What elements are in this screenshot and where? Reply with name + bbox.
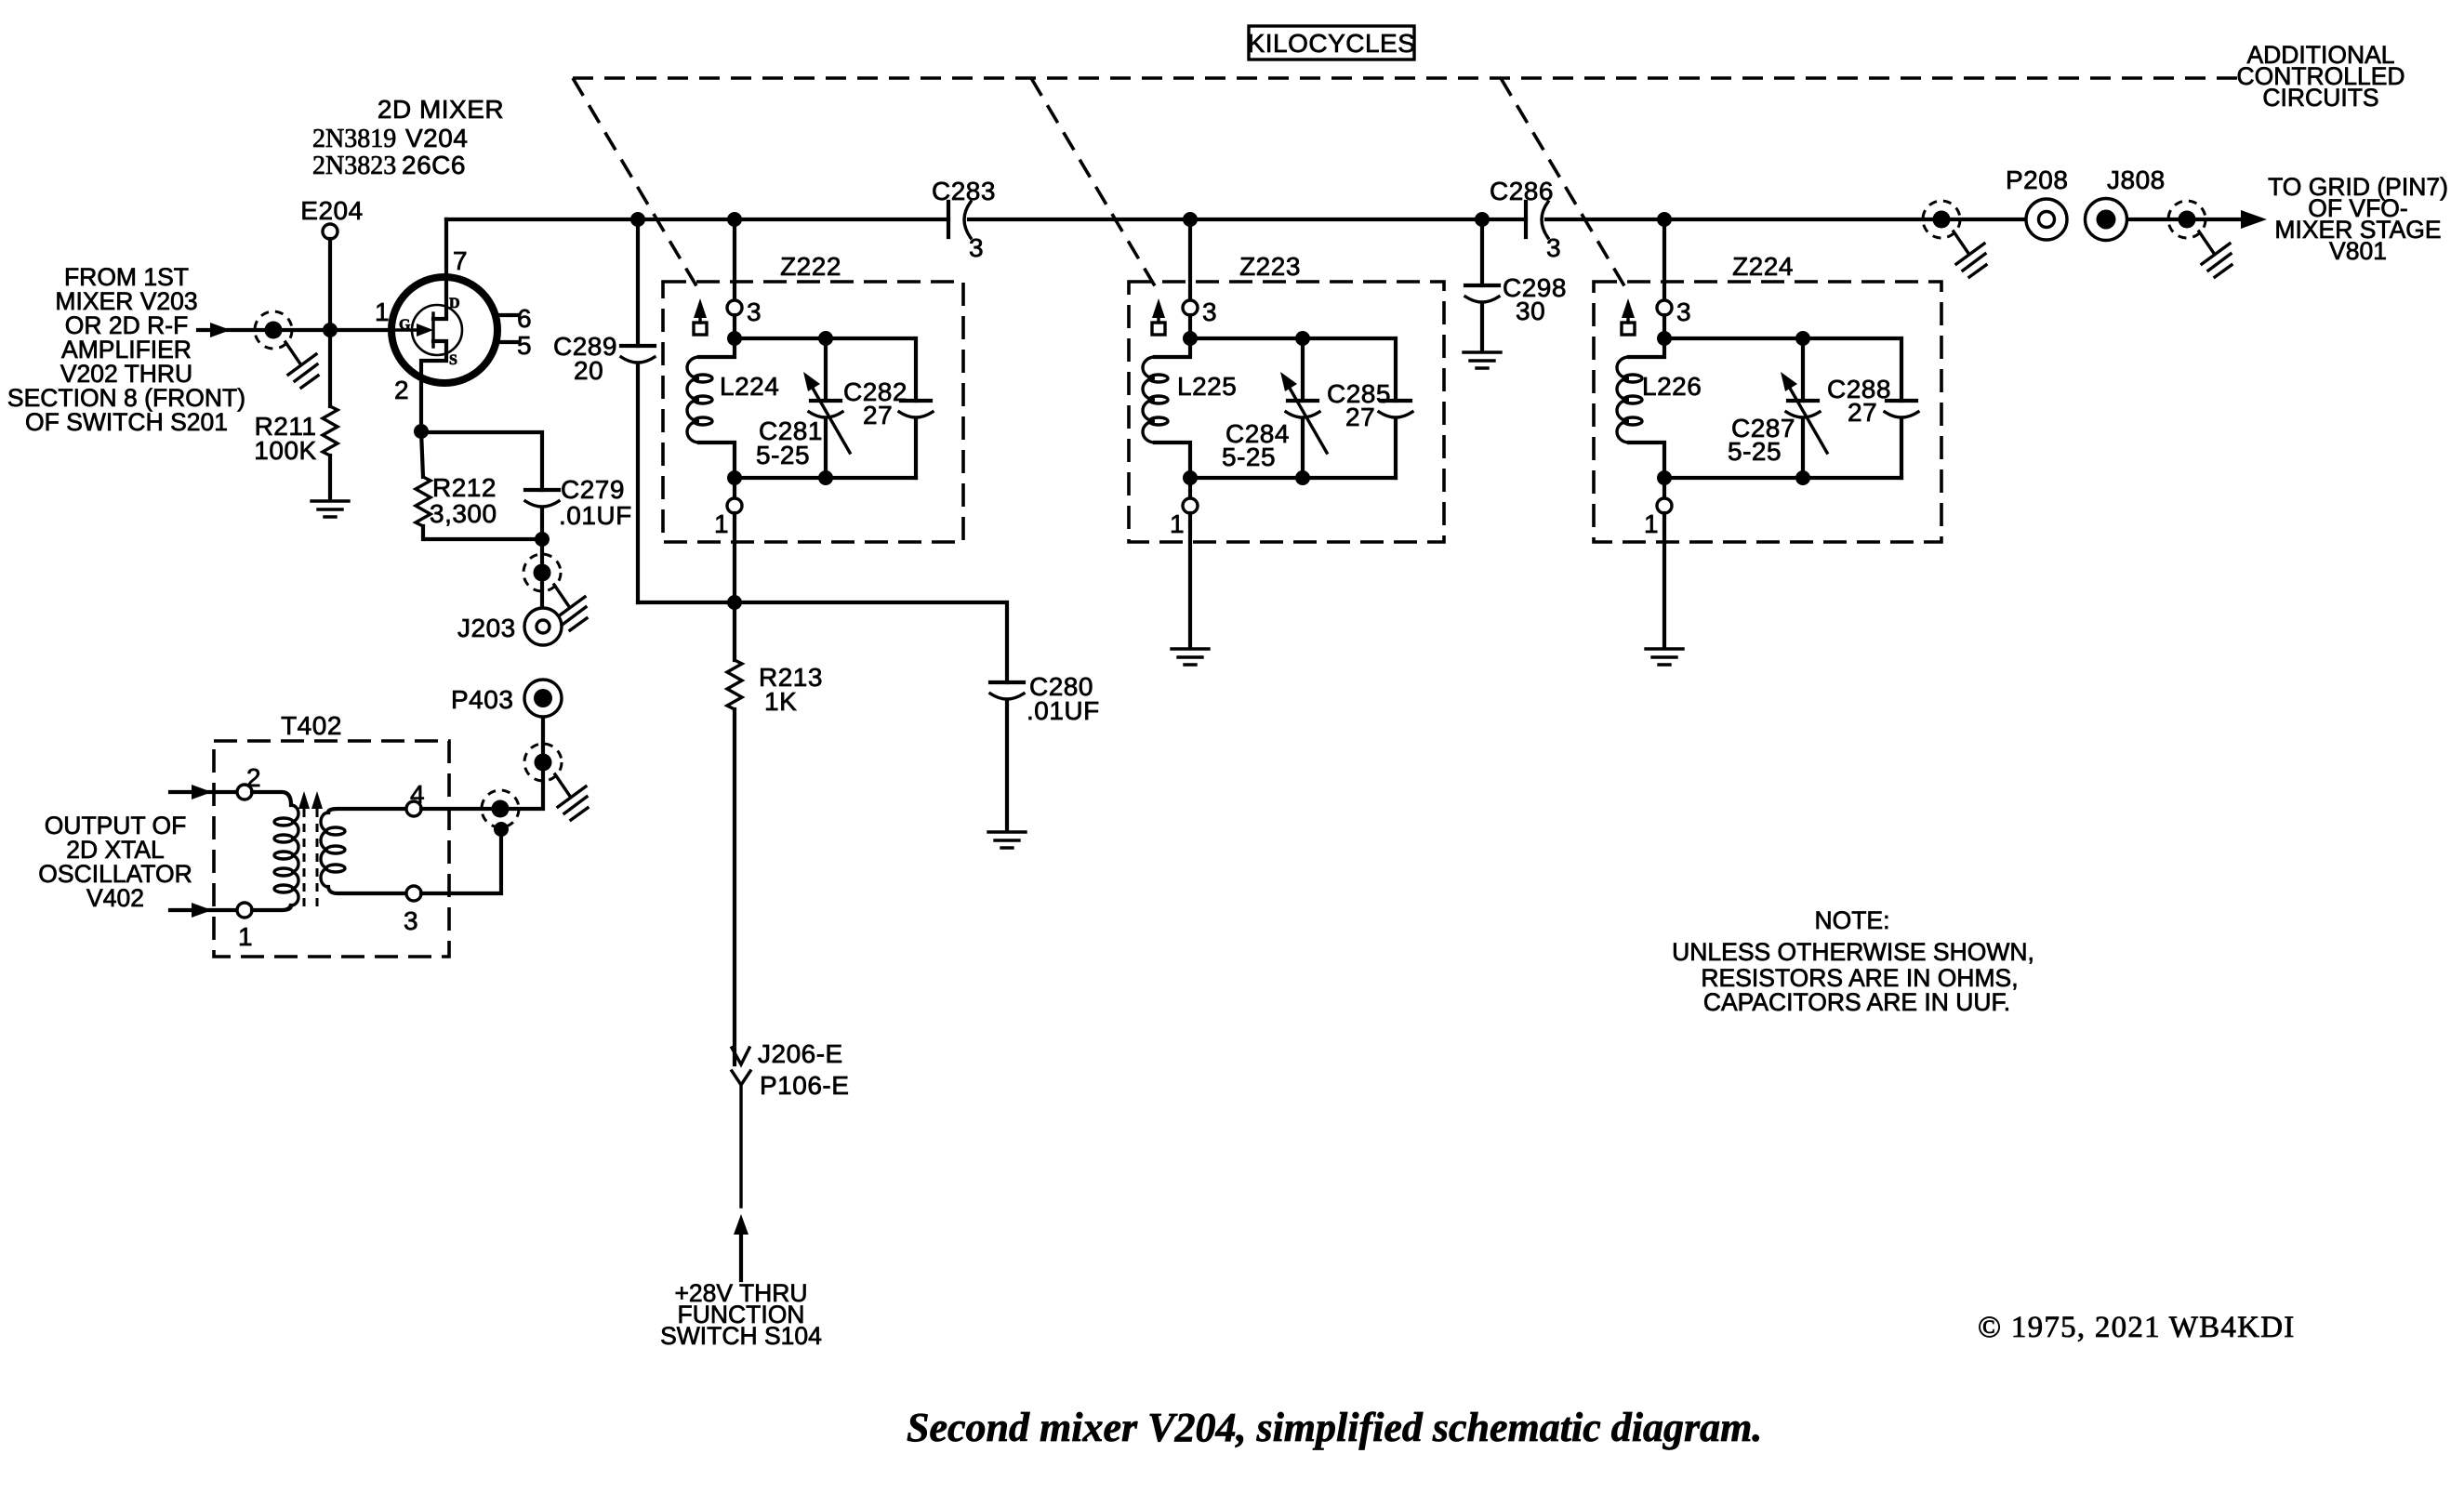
pin 3 of Z223 bbox=[1188, 219, 1192, 301]
connector: output feedthrough 2 with ground bbox=[2168, 201, 2232, 277]
svg-text:5-25: 5-25 bbox=[756, 441, 810, 469]
svg-text:T402: T402 bbox=[281, 711, 342, 740]
node: Z224 bottom-left junction bbox=[1657, 470, 1672, 485]
svg-text:1: 1 bbox=[238, 922, 253, 951]
svg-text:3: 3 bbox=[404, 906, 418, 935]
svg-text:Z224: Z224 bbox=[1732, 252, 1794, 281]
pin 2 of T402 bbox=[237, 785, 252, 799]
terminal E204 bbox=[300, 196, 363, 406]
svg-text:P208: P208 bbox=[2006, 165, 2068, 194]
node: junction at source / R212 / C279 bbox=[414, 424, 429, 439]
V204 envelope circle bbox=[391, 277, 497, 383]
wire: pin 3 return loop bbox=[421, 829, 501, 893]
svg-text:L225: L225 bbox=[1177, 372, 1237, 401]
connector P403 bbox=[451, 680, 562, 717]
wire: dashed diagonal to Z222 slug bbox=[573, 78, 701, 294]
transformer T402 dashed box bbox=[214, 741, 449, 957]
resistor R213 1K bbox=[727, 602, 823, 1064]
node: junction at R213 bbox=[727, 595, 742, 610]
svg-text:27: 27 bbox=[1848, 398, 1877, 427]
slug tuning arrow Z222 bbox=[694, 298, 707, 335]
variable capacitor C281 5-25 bbox=[756, 338, 850, 478]
capacitor C288 27 bbox=[1827, 375, 1918, 478]
svg-text:26C6: 26C6 bbox=[402, 151, 466, 179]
svg-text:J206-E: J206-E bbox=[758, 1039, 843, 1068]
wire: bottom horizontal node (R213/C280) bbox=[638, 602, 1007, 682]
svg-text:CIRCUITS: CIRCUITS bbox=[2262, 84, 2378, 112]
pin 3 of Z222 bbox=[733, 219, 736, 301]
node: Z222 top-left junction bbox=[727, 331, 742, 346]
svg-text:1: 1 bbox=[375, 297, 390, 326]
connector P106-E (fork) bbox=[732, 1071, 849, 1207]
ground for C298 bbox=[1464, 350, 1501, 368]
wire: Z222 top node bbox=[735, 338, 916, 401]
node: bus junction at Z222 pin 3 bbox=[727, 212, 742, 227]
svg-text:27: 27 bbox=[863, 401, 893, 429]
svg-text:20: 20 bbox=[574, 356, 603, 385]
svg-text:E204: E204 bbox=[300, 196, 363, 225]
node: junction input / E204 / R211 bbox=[323, 323, 338, 337]
node: Z223 top-left junction bbox=[1183, 331, 1198, 346]
svg-text:G: G bbox=[399, 317, 411, 333]
svg-text:Second mixer V204, simplified: Second mixer V204, simplified schematic … bbox=[907, 1405, 1762, 1450]
node: Z223 bottom C284 junction bbox=[1295, 470, 1310, 485]
svg-text:27: 27 bbox=[1345, 403, 1375, 431]
wire: input arrow to pin 2 bbox=[170, 790, 237, 794]
slug tuning arrow Z223 bbox=[1152, 298, 1165, 335]
node: Z224 top-left junction bbox=[1657, 331, 1672, 346]
tuned circuit Z224 dashed box bbox=[1594, 282, 1941, 542]
node: Z223 bottom-left junction bbox=[1183, 470, 1198, 485]
svg-text:5: 5 bbox=[517, 331, 532, 360]
svg-text:30: 30 bbox=[1516, 297, 1545, 325]
wire: +28V feed arrow bbox=[734, 1214, 748, 1235]
pin 3 of Z224 bbox=[1663, 219, 1666, 301]
node: Z222 bottom C281 junction bbox=[818, 470, 833, 485]
resistor R212 3,300 bbox=[416, 431, 542, 539]
svg-text:© 1975, 2021 WB4KDI: © 1975, 2021 WB4KDI bbox=[1978, 1311, 2296, 1344]
node: bus junction at C289 branch bbox=[630, 212, 645, 227]
wire: output arrowhead bbox=[2241, 210, 2267, 229]
svg-text:1: 1 bbox=[1644, 509, 1659, 538]
tuned circuit Z222 dashed box bbox=[663, 282, 963, 542]
svg-text:CAPACITORS ARE IN UUF.: CAPACITORS ARE IN UUF. bbox=[1703, 988, 2010, 1016]
inductor L224 bbox=[687, 338, 779, 478]
svg-text:J203: J203 bbox=[457, 614, 516, 642]
ground for R211 bbox=[311, 499, 349, 517]
inductor L226 bbox=[1617, 338, 1702, 478]
T402 secondary winding bbox=[321, 809, 406, 893]
svg-text:6: 6 bbox=[517, 304, 532, 333]
wire: input line with arrow into gate bbox=[198, 328, 391, 332]
node: bus junction at Z224 pin 3 bbox=[1657, 212, 1672, 227]
svg-text:SWITCH S104: SWITCH S104 bbox=[660, 1322, 822, 1350]
V204 JFET symbol circle bbox=[412, 305, 462, 355]
svg-text:3: 3 bbox=[1202, 297, 1217, 326]
node: junction shield stub bbox=[494, 822, 509, 837]
pin 1 of T402 bbox=[237, 903, 252, 918]
wire: drain lead up (pin 7) bbox=[433, 219, 446, 319]
capacitor C289 20 (branch) bbox=[553, 219, 655, 602]
connector J203 bbox=[457, 608, 562, 645]
resistor R211 100K bbox=[254, 406, 338, 497]
svg-text:Z222: Z222 bbox=[780, 252, 841, 281]
pin 1 of Z222 bbox=[733, 478, 736, 499]
svg-text:C286: C286 bbox=[1490, 177, 1554, 205]
svg-text:OF SWITCH S201: OF SWITCH S201 bbox=[25, 408, 228, 436]
svg-text:C279: C279 bbox=[561, 475, 625, 504]
ground for Z224 bbox=[1646, 647, 1683, 665]
svg-text:D: D bbox=[449, 296, 460, 311]
svg-text:3: 3 bbox=[747, 297, 762, 326]
wire: Z223 top node bbox=[1190, 338, 1396, 401]
ground for C280 bbox=[988, 830, 1026, 848]
wire: dashed diagonal to Z224 slug bbox=[1501, 78, 1629, 294]
svg-text:R212: R212 bbox=[432, 473, 497, 502]
wire: source lead down (pin 2) bbox=[421, 341, 446, 431]
svg-text:P403: P403 bbox=[451, 685, 513, 714]
text: TO GRID note bbox=[2268, 173, 2448, 265]
T402 core (dashed) with arrows bbox=[298, 791, 323, 911]
wire: Z224 bottom node bbox=[1664, 476, 1901, 480]
ground for Z223 bbox=[1172, 647, 1209, 665]
svg-text:Z223: Z223 bbox=[1239, 252, 1301, 281]
svg-text:1K: 1K bbox=[764, 687, 797, 716]
wire: source node to C279 top bbox=[421, 432, 542, 490]
svg-text:.01UF: .01UF bbox=[1027, 696, 1100, 725]
svg-text:7: 7 bbox=[453, 246, 468, 275]
capacitor C285 27 bbox=[1327, 379, 1412, 478]
svg-text:.01UF: .01UF bbox=[559, 501, 632, 530]
text: OUTPUT OF 2D XTAL OSCILLATOR V402 bbox=[38, 812, 192, 912]
svg-text:2N3823: 2N3823 bbox=[312, 152, 396, 180]
wire: pin 4 to P403 riser bbox=[421, 720, 543, 809]
transistor V204 2D MIXER bbox=[312, 95, 532, 431]
capacitor C280 .01UF (to ground) bbox=[990, 672, 1100, 830]
connector: output feedthrough 1 with ground bbox=[1923, 201, 1986, 277]
connector: feedthrough above J203 with ground bbox=[523, 554, 587, 630]
inductor L225 bbox=[1143, 338, 1237, 478]
connector: feedthrough on P403 riser with ground bbox=[524, 744, 588, 820]
node: Z223 top C284 junction bbox=[1295, 331, 1310, 346]
wire: dashed mechanical control bus bbox=[573, 76, 2238, 80]
svg-text:1: 1 bbox=[714, 509, 729, 538]
wire: pin 5 stub bbox=[497, 340, 518, 344]
node: Z224 bottom C287 junction bbox=[1795, 470, 1810, 485]
node: Z222 bottom-left junction bbox=[727, 470, 742, 485]
svg-text:5-25: 5-25 bbox=[1222, 443, 1276, 471]
svg-text:C283: C283 bbox=[932, 177, 996, 205]
wire: down to J203 bbox=[540, 539, 544, 608]
capacitor C283 3 bbox=[932, 177, 996, 262]
svg-text:V801: V801 bbox=[2329, 237, 2387, 265]
node: junction C279/R212 to J203 bbox=[535, 532, 550, 547]
wire: pin 6 stub bbox=[497, 313, 518, 317]
node: Z222 top C281 junction bbox=[818, 331, 833, 346]
pin 4 of T402 bbox=[406, 801, 421, 816]
capacitor C298 30 (branch to ground) bbox=[1465, 219, 1567, 350]
svg-text:J808: J808 bbox=[2107, 165, 2166, 194]
slug tuning arrow Z224 bbox=[1622, 298, 1635, 335]
svg-text:4: 4 bbox=[410, 780, 425, 809]
wire: Z223 bottom node bbox=[1190, 476, 1396, 480]
capacitor C282 27 bbox=[843, 377, 933, 478]
svg-text:2: 2 bbox=[246, 763, 261, 792]
wire: Z222 bottom node bbox=[735, 476, 916, 480]
capacitor C279 .01UF bbox=[525, 475, 632, 539]
svg-text:S: S bbox=[449, 352, 457, 368]
text: +28V THRU FUNCTION SWITCH S104 bbox=[660, 1279, 822, 1350]
connector P208 bbox=[2006, 165, 2068, 240]
svg-text:P106-E: P106-E bbox=[760, 1071, 849, 1100]
pin 1 of Z223 bbox=[1188, 478, 1192, 499]
pin 3 of T402 bbox=[406, 886, 421, 901]
svg-text:2: 2 bbox=[394, 376, 409, 404]
svg-text:UNLESS OTHERWISE SHOWN,: UNLESS OTHERWISE SHOWN, bbox=[1672, 938, 2034, 966]
svg-text:2N3819: 2N3819 bbox=[312, 125, 396, 153]
tuned circuit Z223 dashed box bbox=[1129, 282, 1444, 542]
svg-text:L226: L226 bbox=[1642, 372, 1702, 401]
KILOCYCLES label box bbox=[1249, 26, 1414, 59]
connector: feedthrough on pin-4 line with ground bbox=[492, 800, 510, 818]
svg-text:3,300: 3,300 bbox=[430, 499, 497, 528]
text: NOTE block bbox=[1672, 906, 2034, 1016]
svg-text:5-25: 5-25 bbox=[1728, 437, 1782, 466]
variable capacitor C287 5-25 bbox=[1728, 338, 1827, 478]
text: ADDITIONAL CONTROLLED CIRCUITS bbox=[2236, 41, 2404, 112]
V204 gate arrow bbox=[391, 328, 420, 331]
svg-text:V402: V402 bbox=[86, 884, 144, 912]
svg-text:3: 3 bbox=[1546, 233, 1561, 262]
wire: dashed diagonal to Z223 slug bbox=[1031, 78, 1159, 294]
wire: input arrow to pin 1 bbox=[170, 908, 237, 912]
text: FROM 1ST MIXER note bbox=[7, 263, 245, 436]
connector J206-E (arrow) bbox=[732, 1039, 843, 1068]
svg-text:3: 3 bbox=[969, 233, 984, 262]
svg-text:100K: 100K bbox=[254, 436, 316, 465]
svg-text:NOTE:: NOTE: bbox=[1815, 906, 1890, 934]
node: bus junction at C298 branch bbox=[1475, 212, 1490, 227]
variable capacitor C284 5-25 bbox=[1222, 338, 1327, 478]
V204 channel bar bbox=[431, 313, 434, 347]
pin 1 of Z224 bbox=[1663, 478, 1666, 499]
wire: Z224 top node bbox=[1664, 338, 1901, 401]
svg-text:1: 1 bbox=[1170, 509, 1185, 538]
svg-text:3: 3 bbox=[1676, 297, 1691, 326]
capacitor C286 3 bbox=[1490, 177, 1561, 262]
node: bus junction at Z223 pin 3 bbox=[1183, 212, 1198, 227]
wire: main bus from V204 drain corner to output arrow bbox=[446, 218, 2250, 221]
connector: input feedthrough with ground bbox=[255, 311, 318, 388]
svg-text:V204: V204 bbox=[405, 124, 468, 152]
svg-text:2D MIXER: 2D MIXER bbox=[378, 95, 504, 124]
node: Z224 top C287 junction bbox=[1795, 331, 1810, 346]
T402 primary winding bbox=[252, 792, 298, 910]
connector J808 bbox=[2086, 165, 2166, 241]
svg-text:KILOCYCLES: KILOCYCLES bbox=[1248, 29, 1416, 58]
svg-text:L224: L224 bbox=[720, 372, 779, 401]
